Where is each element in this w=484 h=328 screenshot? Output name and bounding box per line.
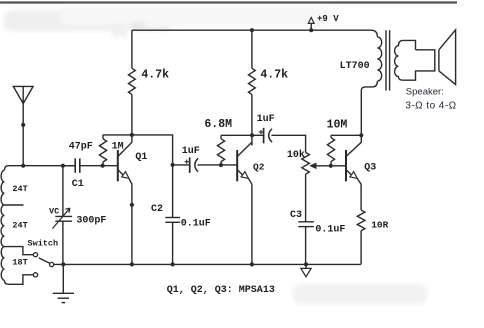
svg-text:Q1: Q1 [135, 152, 147, 163]
wire 1uF2 to 10k pot [271, 135, 305, 152]
wire C3 bottom lead [305, 227, 307, 265]
svg-text:Q1, Q2, Q3: MPSA13: Q1, Q2, Q3: MPSA13 [167, 285, 275, 296]
node coil/antenna junction [21, 164, 25, 168]
svg-text:3-Ω to 4-Ω: 3-Ω to 4-Ω [405, 100, 456, 111]
svg-text:10k: 10k [287, 149, 305, 161]
node Q3 collector junction [359, 133, 363, 137]
svg-text:1uF: 1uF [257, 114, 275, 125]
wire Q1 collector top line [103, 135, 173, 165]
wire C1 to 1M junction [80, 165, 118, 167]
capacitor 1uF (second) polarized [263, 128, 265, 144]
svg-text:C2: C2 [151, 204, 163, 215]
wire top rail left segment [131, 30, 133, 68]
ground (earth) symbol [62, 264, 64, 293]
svg-text:10R: 10R [371, 219, 388, 230]
capacitor VC plates [55, 215, 72, 217]
wire C2 junction to 1uF [173, 164, 190, 166]
capacitor 1uF (first) polarized [189, 157, 191, 173]
wire Q2 emitter to rail [251, 184, 253, 264]
resistor R 4.7k (second) [248, 68, 255, 94]
svg-text:Speaker:: Speaker: [406, 87, 444, 98]
VC arrow [52, 208, 70, 229]
pot wiper arrow [315, 165, 331, 167]
svg-text:24T: 24T [12, 184, 27, 194]
wire VC bottom lead [62, 221, 64, 264]
svg-text:LT700: LT700 [340, 61, 370, 72]
speaker driver body [395, 40, 435, 80]
capacitor C2 plates [165, 217, 180, 219]
node 4.7k2 rail junction [250, 28, 254, 32]
wire Q1 emitter to rail [131, 184, 133, 264]
node antenna-wire junction dot [21, 123, 25, 127]
switch common contact [50, 262, 54, 266]
power +9V symbol [309, 28, 313, 32]
ground marker (open triangle) [305, 264, 307, 268]
switch lever [39, 258, 50, 263]
switch contact bottom [33, 273, 37, 277]
svg-text:47pF: 47pF [69, 141, 93, 152]
svg-text:24T: 24T [12, 220, 27, 230]
watermark smudge top-left [3, 10, 173, 31]
wire tap to switch top contact [4, 247, 33, 255]
wire top rail to 4.7k2 [251, 30, 253, 68]
wire Q3 collector up to transformer [360, 91, 362, 143]
svg-text:0.1uF: 0.1uF [181, 219, 211, 230]
transistor Q3 [345, 150, 347, 181]
svg-text:C1: C1 [72, 179, 84, 190]
svg-text:Switch: Switch [28, 238, 59, 248]
potentiometer R 10k [302, 153, 310, 175]
node Q2 emitter rail junction [250, 262, 254, 266]
inductor L1 section 24T (top) [1, 170, 4, 205]
svg-text:4.7k: 4.7k [260, 69, 288, 82]
node VC junction [61, 164, 65, 168]
transistor Q1 [117, 150, 119, 181]
svg-text:300pF: 300pF [76, 216, 106, 227]
capacitor C3 plates [298, 221, 314, 223]
speaker voice-coil bar [438, 50, 440, 71]
svg-text:+9 V: +9 V [317, 14, 339, 24]
svg-text:Q2: Q2 [253, 162, 265, 173]
top border line [0, 1, 457, 3]
wire VC junction to C1 [63, 165, 75, 167]
resistor R 1M [99, 139, 106, 162]
wire coil bottom to switch bottom contact [4, 275, 33, 285]
node emitter-wire dot [130, 203, 134, 207]
wire 6.8M top line to 1uF2 [221, 134, 264, 136]
svg-text:1uF: 1uF [182, 146, 200, 157]
svg-text:om: om [132, 20, 145, 30]
resistor R 10M [327, 138, 334, 162]
svg-text:0.1uF: 0.1uF [315, 224, 345, 235]
wire tap stub (antenna tap) [4, 204, 23, 206]
node 1M bottom junction [101, 164, 105, 168]
inductor L1 section 18T (bottom) [1, 247, 4, 281]
wire 10M top line [331, 134, 361, 136]
wire pot bottom to C3 [305, 174, 307, 222]
node C2 top junction [171, 163, 175, 167]
wire Q3 emitter to 10R [360, 184, 362, 210]
wire 4.7k to Q1 collector [131, 94, 133, 142]
node C2 rail junction [171, 262, 175, 266]
svg-text:10M: 10M [327, 119, 348, 132]
svg-text:18T: 18T [12, 258, 27, 268]
svg-text:6.8M: 6.8M [204, 118, 232, 131]
speaker cone [439, 30, 456, 85]
svg-text:C3: C3 [290, 210, 302, 221]
node C3 rail junction [304, 262, 308, 266]
transistor Q2 [236, 150, 238, 181]
wire C2 top lead [172, 165, 174, 218]
wire bottom ground rail [54, 263, 361, 265]
wire VC top lead [62, 166, 64, 217]
resistor R 10R [357, 210, 365, 231]
resistor R 6.8M [217, 139, 224, 162]
wire tuned-circuit line (coil top to C1) [4, 166, 74, 171]
svg-text:VC: VC [49, 206, 59, 216]
transformer primary winding [377, 37, 381, 81]
node Q1 emitter rail junction [130, 262, 134, 266]
wire C2 bottom lead [172, 222, 174, 264]
watermark smudge bottom-right [292, 284, 428, 304]
inductor L1 section 24T (middle) [1, 205, 4, 247]
node rail/ground junction [61, 262, 65, 266]
node Q1 collector junction [130, 133, 134, 137]
svg-text:4.7k: 4.7k [141, 69, 169, 82]
wire 10R to rail [360, 231, 362, 265]
node 10M bottom junction [329, 164, 333, 168]
capacitor C1 plates [74, 158, 76, 172]
wire 4.7k2 to Q2 collector junction [251, 94, 253, 145]
node 6.8M bottom junction [219, 163, 223, 167]
switch contact top [33, 253, 37, 257]
wire wiper junction to Q3 base [331, 165, 346, 167]
wire +9V top rail [132, 30, 378, 37]
resistor R 4.7k (first) [128, 68, 135, 94]
wire Q2 collector diag vert [251, 142, 253, 145]
svg-text:Q3: Q3 [364, 162, 376, 173]
wire 1uF to Q2 base [198, 164, 238, 166]
antenna [13, 86, 33, 103]
transformer core [385, 30, 387, 90]
node Q2 collector junction [250, 133, 254, 137]
